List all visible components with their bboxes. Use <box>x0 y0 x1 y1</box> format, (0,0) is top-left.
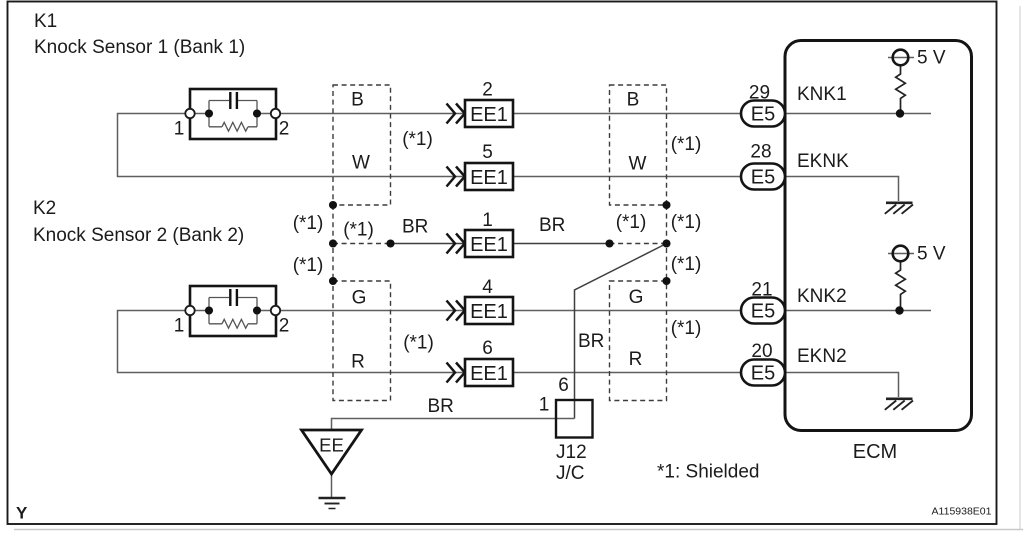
svg-text:EE1: EE1 <box>470 301 508 323</box>
svg-text:Knock Sensor 2 (Bank 2): Knock Sensor 2 (Bank 2) <box>33 225 244 246</box>
svg-text:Y: Y <box>16 504 28 523</box>
svg-text:(*1): (*1) <box>403 333 434 354</box>
svg-text:1: 1 <box>174 119 185 140</box>
svg-text:E5: E5 <box>751 104 775 126</box>
svg-text:J/C: J/C <box>556 463 585 484</box>
svg-text:EE1: EE1 <box>470 167 508 189</box>
svg-text:(*1): (*1) <box>402 129 433 150</box>
svg-text:W: W <box>629 154 647 175</box>
svg-text:(*1): (*1) <box>616 212 647 233</box>
svg-text:28: 28 <box>750 142 771 163</box>
svg-text:E5: E5 <box>751 167 775 189</box>
svg-text:(*1): (*1) <box>293 255 324 276</box>
svg-text:5 V: 5 V <box>917 48 946 69</box>
svg-text:(*1): (*1) <box>671 318 702 339</box>
svg-text:A115938E01: A115938E01 <box>932 506 992 518</box>
svg-text:ECM: ECM <box>853 441 897 463</box>
svg-text:BR: BR <box>402 217 428 238</box>
svg-text:B: B <box>351 90 364 111</box>
svg-text:(*1): (*1) <box>671 134 702 155</box>
svg-text:KNK2: KNK2 <box>797 286 847 307</box>
svg-text:2: 2 <box>279 316 290 337</box>
svg-text:2: 2 <box>279 119 290 140</box>
svg-text:EE1: EE1 <box>470 104 508 126</box>
svg-text:(*1): (*1) <box>671 254 702 275</box>
svg-text:21: 21 <box>751 280 772 301</box>
svg-text:G: G <box>352 288 367 309</box>
svg-text:EE1: EE1 <box>470 363 508 385</box>
svg-text:6: 6 <box>558 375 569 396</box>
svg-text:BR: BR <box>578 331 604 352</box>
svg-text:G: G <box>629 287 644 308</box>
svg-text:BR: BR <box>428 396 454 417</box>
svg-text:5: 5 <box>482 142 493 163</box>
svg-text:J12: J12 <box>556 442 587 463</box>
svg-text:*1: Shielded: *1: Shielded <box>657 462 759 483</box>
svg-text:(*1): (*1) <box>293 213 324 234</box>
svg-text:K2: K2 <box>33 198 56 219</box>
svg-text:5 V: 5 V <box>917 244 946 265</box>
svg-text:2: 2 <box>482 80 493 101</box>
svg-text:(*1): (*1) <box>671 212 702 233</box>
svg-text:EE: EE <box>319 435 344 456</box>
svg-text:E5: E5 <box>751 301 775 323</box>
svg-text:EE1: EE1 <box>470 234 508 256</box>
svg-text:1: 1 <box>174 316 185 337</box>
svg-text:B: B <box>627 90 640 111</box>
svg-text:E5: E5 <box>751 363 775 385</box>
svg-text:R: R <box>351 352 365 373</box>
svg-text:1: 1 <box>539 395 550 416</box>
svg-text:K1: K1 <box>34 11 57 32</box>
svg-text:R: R <box>629 349 643 370</box>
svg-text:KNK1: KNK1 <box>797 84 847 105</box>
svg-text:6: 6 <box>482 338 493 359</box>
svg-text:(*1): (*1) <box>343 220 374 241</box>
svg-text:29: 29 <box>749 83 770 104</box>
svg-text:20: 20 <box>751 341 772 362</box>
svg-text:W: W <box>352 153 370 174</box>
svg-text:EKNK: EKNK <box>797 151 849 172</box>
svg-text:4: 4 <box>482 277 493 298</box>
svg-text:EKN2: EKN2 <box>797 346 847 367</box>
svg-text:Knock Sensor 1 (Bank 1): Knock Sensor 1 (Bank 1) <box>34 37 245 58</box>
svg-text:BR: BR <box>539 215 565 236</box>
svg-text:1: 1 <box>482 210 493 231</box>
